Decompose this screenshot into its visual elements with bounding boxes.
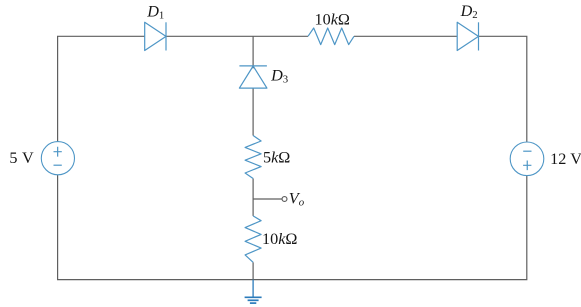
resistor 10k bottom: [245, 216, 261, 262]
resistor 10k top: [308, 28, 354, 45]
svg-text:D1: D1: [146, 3, 164, 22]
diode D1: [145, 22, 166, 50]
svg-text:D3: D3: [270, 67, 288, 86]
wire top rail resistor to D2: [354, 35, 457, 37]
svg-text:D2: D2: [460, 2, 478, 21]
wire D3 to 5k resistor: [252, 88, 254, 135]
node Vo terminal circle: [282, 197, 287, 202]
diode D2: [457, 22, 478, 50]
voltage source V1 left: [41, 142, 74, 175]
wire bottom rail with left and right risers: [58, 175, 527, 280]
svg-text:12V: 12V: [550, 150, 581, 168]
svg-text:10kΩ: 10kΩ: [315, 10, 350, 28]
wire 10k resistor to bottom rail: [252, 262, 254, 279]
wire middle branch top to D3: [252, 36, 254, 68]
svg-text:5V: 5V: [9, 149, 34, 167]
wire top-right corner run: [479, 36, 527, 142]
ground: [245, 280, 262, 304]
wire top rail D1 to resistor: [166, 35, 308, 37]
resistor 5k: [245, 136, 261, 179]
voltage source V2 right: [510, 142, 544, 176]
svg-text:10kΩ: 10kΩ: [262, 230, 297, 248]
svg-text:5kΩ: 5kΩ: [263, 149, 290, 167]
wire Vo tap: [253, 198, 282, 200]
svg-text:Vo: Vo: [289, 190, 305, 209]
diode D3: [239, 66, 267, 88]
wire top-left corner run: [58, 36, 145, 141]
wire 5k resistor to 10k resistor: [252, 179, 254, 216]
